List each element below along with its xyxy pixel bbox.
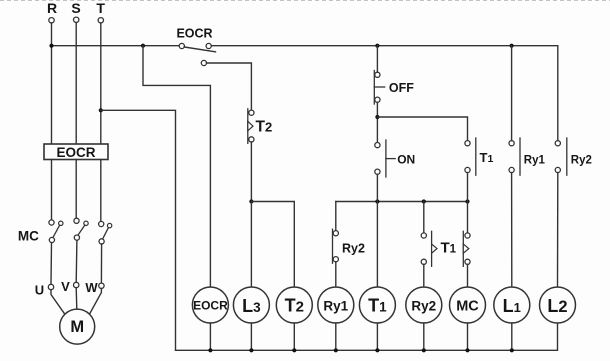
svg-text:ON: ON bbox=[397, 152, 415, 166]
node T2 bus bbox=[292, 348, 296, 352]
wire L3 coil to bus bbox=[250, 323, 252, 350]
wire S EOCR-box to MC bbox=[75, 160, 77, 219]
op contact EOCR changeover bbox=[179, 43, 215, 65]
wire EOCR coil to bus bbox=[209, 323, 211, 350]
wire V to motor bbox=[75, 288, 78, 310]
svg-text:R: R bbox=[47, 0, 57, 16]
node junction Ry1 branch bbox=[510, 44, 514, 48]
wire T2 coil to bus bbox=[293, 323, 295, 350]
wire T1 NC to MC coil bbox=[467, 264, 469, 287]
wire T phase vertical bbox=[100, 23, 102, 144]
contact T2 NC timed bbox=[248, 109, 254, 144]
wire S phase vertical bbox=[75, 23, 77, 145]
wire ON drop to T1 coil bbox=[376, 174, 378, 287]
wire U to motor bbox=[51, 290, 65, 315]
motor M bbox=[60, 309, 95, 344]
node junction T phase to return bbox=[99, 108, 103, 112]
wire MC to W terminal bbox=[100, 244, 102, 283]
wire to T2 coil bbox=[251, 202, 294, 288]
wire top control rail bbox=[52, 45, 180, 47]
coil Ry2 bbox=[406, 287, 442, 323]
node Ry1 bus bbox=[334, 348, 338, 352]
svg-text:T1: T1 bbox=[441, 240, 457, 257]
contact MC pole 2 bbox=[74, 218, 88, 240]
wire junction to T1 button bbox=[377, 117, 467, 141]
coil L2 bbox=[540, 287, 576, 323]
wire T1 coil to bus bbox=[376, 323, 378, 350]
svg-text:Ry2: Ry2 bbox=[571, 155, 592, 167]
node junction R rail bbox=[49, 44, 53, 48]
node L3 bus bbox=[249, 348, 253, 352]
node junction T1a branch bbox=[422, 199, 426, 203]
wire MC coil to bus bbox=[467, 323, 469, 350]
wire Ry2 to L2 coil bbox=[557, 173, 559, 287]
svg-text:EOCR: EOCR bbox=[193, 299, 228, 313]
wire L3 coil drop bbox=[250, 202, 252, 288]
wire W to motor bbox=[89, 289, 101, 316]
button OFF NC bbox=[374, 71, 384, 105]
coil Ry1 bbox=[318, 287, 354, 323]
contact T1 NO timed bbox=[421, 231, 437, 266]
svg-text:M: M bbox=[70, 318, 84, 336]
node junction OFF branch bbox=[375, 44, 379, 48]
wire Ry2b to Ry1 coil bbox=[335, 262, 337, 287]
node junction MC branch bbox=[465, 199, 469, 203]
svg-text:T: T bbox=[96, 0, 105, 16]
svg-text:T2: T2 bbox=[256, 119, 273, 136]
svg-text:Ry1: Ry1 bbox=[323, 299, 348, 314]
wire rail corner to Ry2 bbox=[557, 46, 559, 141]
contact T1 NO (manual) bbox=[465, 138, 476, 175]
svg-text:L2: L2 bbox=[547, 296, 567, 316]
wire EOCR coil branch bbox=[143, 46, 210, 287]
node Ry2 bus bbox=[422, 348, 426, 352]
terminal U bbox=[48, 284, 53, 289]
wire EOCR NO throw to T2 contact bbox=[207, 63, 252, 110]
wire rail3 corner to Ry2b contact bbox=[335, 202, 337, 231]
wire Ry2 coil to bus bbox=[423, 323, 425, 350]
wire Ry1 coil to bus bbox=[335, 323, 337, 350]
button ON NO bbox=[375, 140, 395, 177]
svg-text:U: U bbox=[35, 283, 44, 298]
contact Ry2 NO bbox=[555, 138, 567, 175]
wire bottom bus bbox=[176, 323, 558, 351]
terminal S bbox=[74, 17, 79, 22]
node MC bus bbox=[465, 348, 469, 352]
svg-text:MC: MC bbox=[456, 299, 479, 315]
svg-text:S: S bbox=[71, 0, 80, 16]
terminal V bbox=[74, 282, 79, 287]
svg-text:MC: MC bbox=[18, 228, 39, 243]
svg-text:V: V bbox=[61, 279, 70, 294]
svg-text:Ry2: Ry2 bbox=[411, 299, 436, 314]
wire R EOCR-box to MC bbox=[51, 160, 53, 220]
coil L1 bbox=[494, 287, 530, 323]
block EOCR overload relay bbox=[44, 144, 108, 160]
contact T1 NC timed bbox=[463, 231, 470, 266]
node EOCR bus bbox=[208, 348, 212, 352]
coil MC bbox=[450, 287, 486, 323]
svg-text:T1: T1 bbox=[480, 150, 494, 165]
contact MC pole 1 bbox=[49, 220, 63, 243]
svg-text:T2: T2 bbox=[285, 296, 304, 316]
svg-text:W: W bbox=[85, 280, 98, 295]
wire top rail right of EOCR bbox=[211, 45, 558, 47]
wire L1 coil to bus bbox=[511, 323, 513, 350]
contact Ry1 NO bbox=[509, 138, 520, 175]
svg-text:Ry2: Ry2 bbox=[342, 242, 365, 256]
svg-text:EOCR: EOCR bbox=[56, 145, 95, 160]
wire R phase vertical bbox=[51, 23, 53, 144]
coil EOCR bbox=[192, 287, 228, 323]
wire rail to OFF bbox=[376, 46, 378, 72]
top scan artifact dashed line bbox=[0, 0, 610, 2]
wire Ry1 to L1 coil bbox=[511, 173, 513, 287]
contact MC pole 3 bbox=[99, 221, 112, 244]
coil T1 bbox=[359, 287, 395, 323]
node junction ON drop bbox=[375, 199, 379, 203]
wire T1 timed to Ry2 coil bbox=[423, 264, 425, 287]
wire T2 contact to L3 node bbox=[250, 142, 252, 202]
coil T2 bbox=[276, 287, 312, 323]
node junction EOCR branch bbox=[141, 44, 145, 48]
contact Ry2 NC interlock bbox=[333, 229, 339, 263]
svg-text:EOCR: EOCR bbox=[176, 27, 212, 41]
wire rail to Ry1 bbox=[511, 46, 513, 141]
wire T1 button to MC contact bbox=[467, 173, 469, 233]
wire control rail 3 bbox=[336, 201, 468, 203]
svg-text:OFF: OFF bbox=[389, 81, 414, 95]
wire T1a branch drop bbox=[423, 202, 425, 234]
node junction OFF bottom bbox=[375, 115, 379, 119]
terminal T bbox=[98, 18, 103, 23]
terminal W bbox=[99, 283, 104, 288]
coil L3 bbox=[233, 287, 269, 323]
wire OFF to ON junction bbox=[376, 102, 378, 142]
wire T EOCR-box to MC bbox=[100, 160, 102, 222]
node L1 bus bbox=[510, 348, 514, 352]
node T1 bus bbox=[375, 348, 379, 352]
terminal R bbox=[49, 18, 54, 23]
wire MC to U terminal bbox=[50, 243, 53, 285]
wire return rail left bbox=[101, 110, 176, 350]
wire MC to V terminal bbox=[75, 240, 78, 282]
node junction L3/T2 branch bbox=[249, 199, 253, 203]
svg-text:Ry1: Ry1 bbox=[524, 155, 546, 167]
